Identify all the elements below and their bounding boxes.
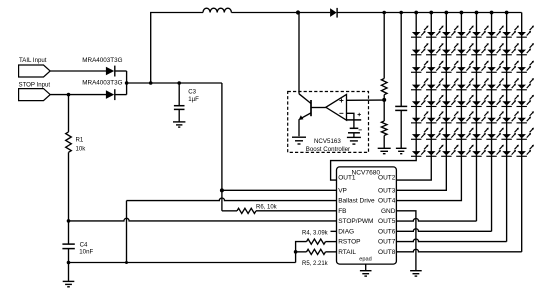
IC U1 NCV7680 [337,167,397,264]
LED D84 [456,145,474,157]
LED D82 [426,145,444,157]
svg-text:TAIL Input: TAIL Input [19,57,47,64]
LED D48 [516,78,534,90]
svg-text:R4, 3.09k: R4, 3.09k [302,231,329,237]
LED D26 [486,43,504,55]
LED D33 [441,61,459,73]
svg-text:OUT1: OUT1 [338,175,356,182]
svg-text:OUT7: OUT7 [378,239,396,246]
junction VP [220,188,224,192]
LED D58 [516,95,534,107]
svg-text:epad: epad [359,256,371,262]
connector STOP Input [19,89,51,101]
LED D15 [471,26,489,38]
svg-text:C4: C4 [80,242,88,249]
svg-text:VP: VP [338,187,347,194]
LED D37 [501,61,519,73]
svg-text:MRA4003T3G: MRA4003T3G [82,57,122,64]
LED D22 [426,43,444,55]
LED D23 [441,43,459,55]
LED D83 [441,145,459,157]
LED D64 [456,111,474,123]
LED D67 [501,111,519,123]
LED D66 [486,111,504,123]
svg-text:OUT5: OUT5 [378,218,396,225]
junction C3 [177,81,181,85]
junction rail LED column [475,11,479,15]
capacitor C3 1uF [178,83,180,105]
LED D42 [426,78,444,90]
wire LED column 8 to OUT8 [521,13,523,252]
LED D51 [411,95,429,107]
LED D32 [426,61,444,73]
wire top rail left segment [151,13,203,84]
LED D54 [456,95,474,107]
LED D31 [411,61,429,73]
LED D27 [501,43,519,55]
capacitor C4 10nF [68,221,70,244]
LED D24 [456,43,474,55]
ground reference [347,136,361,138]
wire VP [222,189,337,191]
wire STOP input to D2 [50,94,106,96]
LED D34 [456,61,474,73]
wire op-amp minus input [347,113,354,119]
svg-text:OUT6: OUT6 [378,228,396,235]
LED D12 [426,26,444,38]
wire TAIL input to D1 [50,70,106,72]
svg-text:10nF: 10nF [79,249,93,256]
svg-text:OUT4: OUT4 [378,198,396,205]
ground epad [365,264,367,270]
LED D13 [441,26,459,38]
voltage reference [347,119,361,121]
wire op-amp output to base [311,107,326,109]
svg-text:GND: GND [381,208,396,215]
wire GND pin [396,211,416,271]
wire main supply node [127,82,222,84]
LED D28 [516,43,534,55]
LED D52 [426,95,444,107]
ground input filter [68,263,70,282]
junction rail cap [399,11,403,15]
wire D2 cathode [115,94,127,96]
ground divider [378,147,391,149]
diode D3 boost rectifier [330,8,337,17]
junction R1 top [67,93,71,97]
svg-text:R1: R1 [76,137,84,144]
boost controller box NCV5163 [288,92,369,153]
junction rail LED column [444,11,448,15]
wire LED column 5 to OUT5 [475,13,477,222]
LED D35 [471,61,489,73]
junction feedback [382,98,386,102]
wire D1 cathode [115,70,127,72]
LED D14 [456,26,474,38]
wire LED column 7 to OUT7 [506,13,508,242]
wire bottom sense net [69,262,296,264]
wire LED column 4 to OUT4 [396,13,461,201]
LED D72 [426,128,444,140]
svg-text:OUT8: OUT8 [378,249,396,256]
LED D81 [411,145,429,157]
LED D85 [471,145,489,157]
wire DIAG stub [331,230,337,232]
LED D86 [486,145,504,157]
ground output cap [396,147,407,149]
svg-text:NCV5163: NCV5163 [314,138,341,145]
wire to R6 [222,210,237,212]
LED D88 [516,145,534,157]
junction C4 bottom [67,261,71,265]
wire rail to Q1 collector [298,13,300,94]
LED D56 [486,95,504,107]
svg-text:MRA4003T3G: MRA4003T3G [82,79,122,86]
ground GND pin [410,270,422,272]
LED D87 [501,145,519,157]
wire STOP/PWM [69,218,337,221]
LED D47 [501,78,519,90]
LED D65 [471,111,489,123]
junction rail LED column [460,11,464,15]
LED D21 [411,43,429,55]
svg-text:STOP Input: STOP Input [19,81,51,88]
wire ballast drop [126,201,128,263]
svg-text:OUT2: OUT2 [378,175,396,182]
svg-text:1µF: 1µF [188,96,199,103]
LED D78 [516,128,534,140]
wire Ballast Drive [127,198,337,201]
svg-text:C3: C3 [188,88,196,95]
wire LED column 1 to OUT1 [331,13,417,181]
wire LED column 3 to OUT3 [396,13,446,191]
LED D53 [441,95,459,107]
LED D73 [441,128,459,140]
svg-text:RSTOP: RSTOP [338,239,360,246]
svg-text:R6, 10k: R6, 10k [256,205,278,211]
junction rail LED column [414,11,418,15]
wire LED column 2 to OUT2 [396,13,431,181]
transistor Q1 [310,100,312,116]
wire rail to LED array [337,12,522,14]
LED D25 [471,43,489,55]
svg-text:R5, 2.21k: R5, 2.21k [302,261,329,267]
svg-text:OUT3: OUT3 [378,187,396,194]
junction rail divider [382,11,386,15]
op-amp U2 error amplifier [326,94,347,120]
wire R6 to FB pin [256,210,337,212]
svg-text:10k: 10k [76,145,87,152]
junction rail LED column [505,11,509,15]
LED D68 [516,111,534,123]
wire op-amp plus input to divider [347,99,385,101]
LED D16 [486,26,504,38]
inductor L1 [203,8,231,12]
wire VP node down to FB resistor [221,190,223,211]
LED D18 [516,26,534,38]
LED D63 [441,111,459,123]
resistor R6 10k [237,208,256,213]
svg-text:FB: FB [338,208,346,215]
resistor divider upper [383,13,385,79]
LED D62 [426,111,444,123]
LED D74 [456,128,474,140]
capacitor output [400,13,402,107]
connector TAIL Input [19,65,51,77]
LED D55 [471,95,489,107]
junction R4/R5 [294,250,298,254]
resistor R4 3.09k (RSTOP) [307,239,326,244]
resistor R5 2.21k (RTAIL) [296,251,307,253]
node diode OR output [125,81,129,85]
node boost switch [296,10,300,14]
LED D38 [516,61,534,73]
LED D61 [411,111,429,123]
resistor R1 10k [68,95,70,132]
wire riser to R4/R5 [296,242,307,263]
junction rail LED column [429,11,433,15]
junction rail LED column [490,11,494,15]
LED D36 [486,61,504,73]
LED D77 [501,128,519,140]
svg-text:STOP/PWM: STOP/PWM [338,218,373,225]
LED D17 [501,26,519,38]
LED D76 [486,128,504,140]
svg-text:NCV7680: NCV7680 [352,169,381,176]
junction rail drop [149,81,153,85]
LED D44 [456,78,474,90]
svg-text:DIAG: DIAG [338,228,354,235]
wire supply to VP [221,83,223,190]
wire rail to boost node [231,12,330,14]
svg-text:Boost Controller: Boost Controller [306,146,350,153]
LED D46 [486,78,504,90]
resistor divider lower [381,121,387,136]
svg-text:Ballast Drive: Ballast Drive [338,198,375,205]
wire LED column 6 to OUT6 [491,13,493,232]
LED D41 [411,78,429,90]
LED D57 [501,95,519,107]
junction ballast drop bottom [125,261,128,264]
LED D11 [411,26,429,38]
LED D71 [411,128,429,140]
LED D75 [471,128,489,140]
ground Q1 emitter [292,136,306,138]
ground C3 [173,121,185,123]
svg-text:RTAIL: RTAIL [338,249,356,256]
LED D43 [441,78,459,90]
junction STOP/PWM [67,219,71,223]
LED D45 [471,78,489,90]
wire diode OR junction [126,71,128,95]
